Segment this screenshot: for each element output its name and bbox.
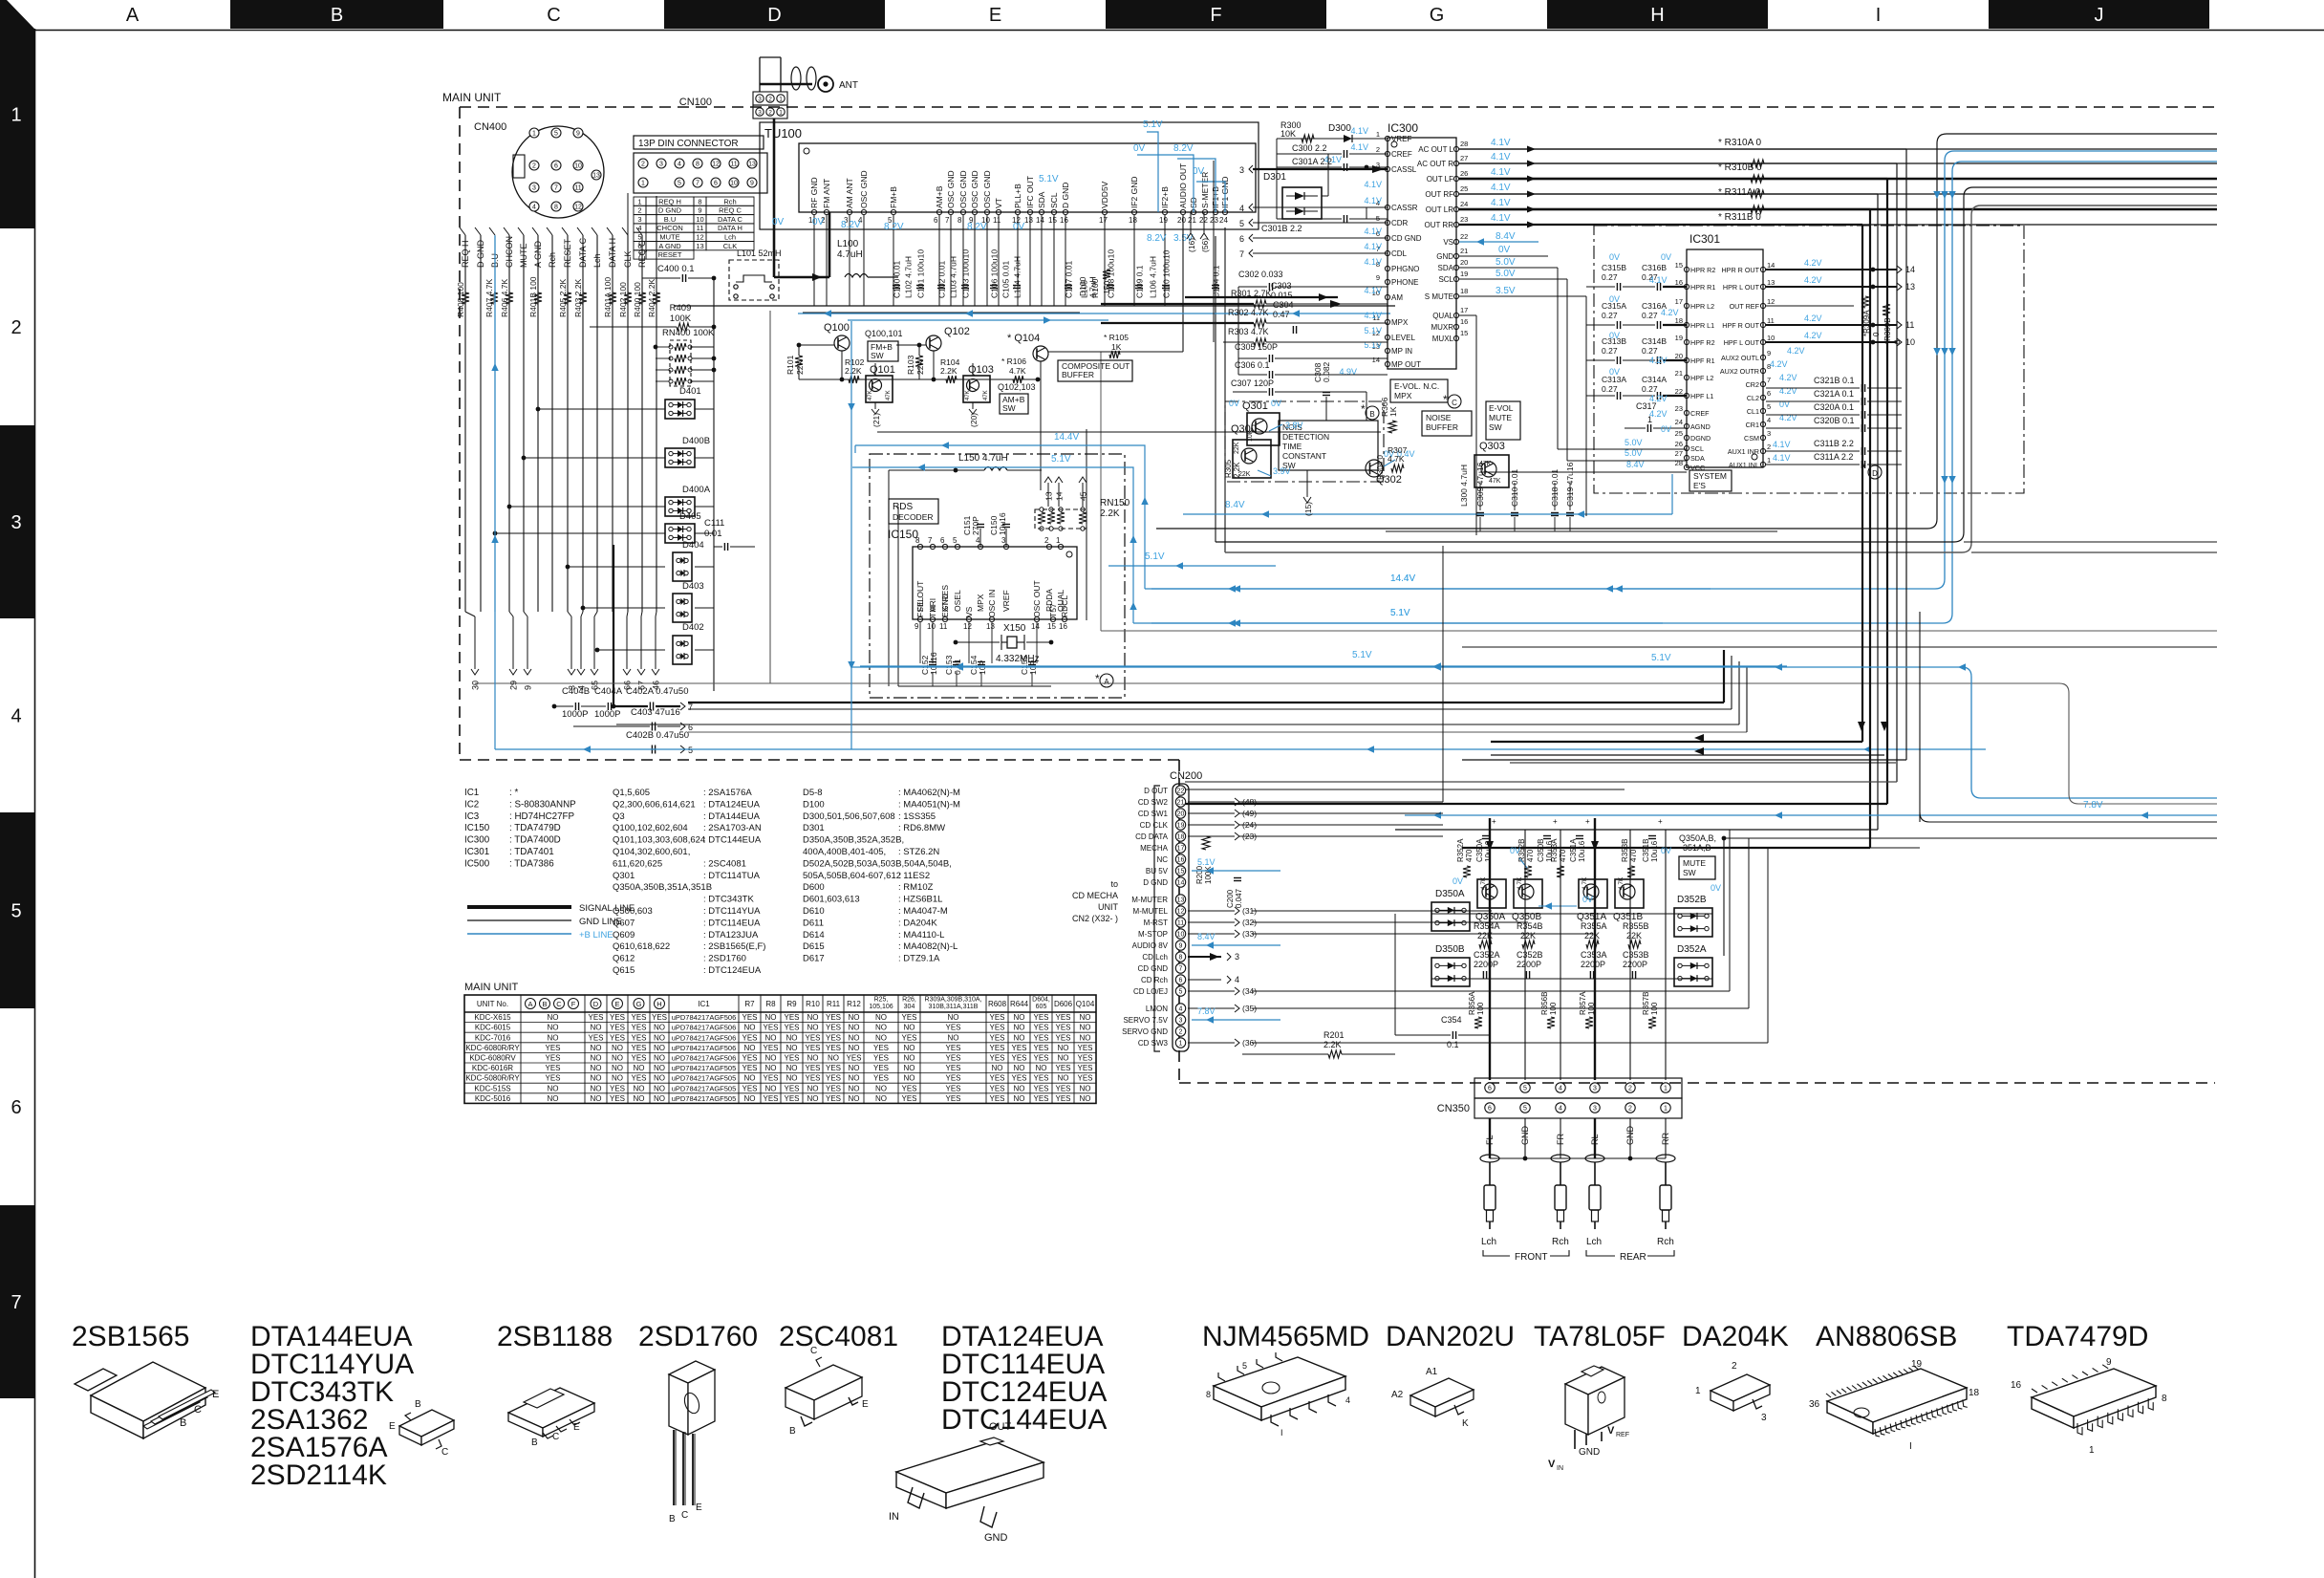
svg-text:8: 8 [958, 216, 962, 225]
IC301 left pins [1684, 267, 1689, 271]
svg-text:0.01: 0.01 [704, 529, 722, 539]
svg-text:3.8V: 3.8V [1285, 421, 1303, 430]
svg-text:Rch: Rch [1552, 1237, 1569, 1247]
svg-text:5.1V: 5.1V [1364, 326, 1382, 335]
svg-text:KDC-X615: KDC-X615 [474, 1013, 511, 1022]
svg-text:YES: YES [1055, 1084, 1070, 1092]
svg-text:0V: 0V [1609, 367, 1620, 377]
svg-text:R406 4.7K: R406 4.7K [500, 279, 509, 317]
svg-text:: S-80830ANNP: : S-80830ANNP [509, 799, 576, 810]
svg-text:Q104,302,600,601,: Q104,302,600,601, [613, 847, 690, 857]
svg-text:: 2SA1703-AN: : 2SA1703-AN [703, 823, 762, 833]
svg-text:E-VOL. N.C.: E-VOL. N.C. [1394, 381, 1439, 391]
svg-text:7: 7 [1767, 376, 1771, 384]
svg-text:uPD784217AGF506: uPD784217AGF506 [672, 1013, 737, 1022]
svg-text:CDL: CDL [1391, 249, 1408, 258]
svg-text:4.7uH: 4.7uH [1088, 276, 1098, 298]
svg-text:8.4V: 8.4V [1496, 231, 1516, 242]
svg-text:5: 5 [1767, 402, 1771, 411]
svg-text:C315B: C315B [1602, 263, 1626, 272]
svg-text:MUTE: MUTE [659, 233, 679, 242]
svg-text:2.2K: 2.2K [940, 366, 958, 376]
svg-text:9: 9 [1767, 349, 1771, 357]
svg-text:RN400 100K: RN400 100K [662, 328, 715, 338]
svg-text:HPR L1: HPR L1 [1690, 321, 1714, 330]
svg-text:14: 14 [1031, 622, 1040, 631]
right corner loop wire 3 (+B) [1133, 162, 2217, 623]
svg-text:0.015: 0.015 [1271, 291, 1293, 300]
svg-text:NO: NO [591, 1094, 602, 1103]
svg-text:19: 19 [1675, 334, 1683, 342]
svg-text:Q1,5,605: Q1,5,605 [613, 788, 650, 798]
svg-text:MP IN: MP IN [1391, 347, 1412, 356]
svg-text:NO: NO [1080, 1094, 1091, 1103]
svg-text:304: 304 [904, 1004, 915, 1010]
svg-text:IC300: IC300 [464, 835, 490, 846]
package drawing TA78L05F [1565, 1367, 1625, 1394]
svg-text:REAR: REAR [1620, 1252, 1646, 1263]
svg-text:MPX: MPX [1391, 318, 1409, 327]
svg-text:IN: IN [1557, 1465, 1563, 1472]
svg-text:4.7K: 4.7K [1517, 876, 1523, 890]
svg-text:19: 19 [1177, 823, 1185, 830]
package drawing SSOP36 AN8806SB [1827, 1369, 1967, 1422]
svg-text:B: B [669, 1514, 676, 1524]
svg-text:REQ H: REQ H [658, 197, 681, 205]
svg-text:3: 3 [532, 185, 536, 192]
svg-text:R608: R608 [988, 1000, 1007, 1008]
connector CN400 circle [512, 126, 604, 218]
svg-text:5: 5 [1179, 989, 1183, 996]
svg-text:4: 4 [637, 224, 641, 232]
svg-text:: 1SS355: : 1SS355 [898, 811, 936, 822]
svg-text:4.1V: 4.1V [1649, 275, 1668, 285]
svg-text:KDC-6080R/RY: KDC-6080R/RY [465, 1044, 520, 1052]
svg-text:5: 5 [637, 233, 641, 242]
svg-text:: RM10Z: : RM10Z [898, 882, 934, 893]
svg-text:11: 11 [730, 162, 737, 168]
svg-text:14.4V: 14.4V [1390, 573, 1415, 584]
svg-text:T57: T57 [1048, 603, 1058, 617]
svg-text:YES: YES [873, 1064, 889, 1072]
svg-text:IC500: IC500 [464, 858, 490, 869]
svg-text:KDC-515S: KDC-515S [474, 1084, 510, 1092]
svg-text:4.2V: 4.2V [1649, 409, 1668, 419]
IC301 right pins [1760, 267, 1765, 271]
svg-text:FM+B: FM+B [889, 186, 898, 208]
MAIN UNIT dashed border mid vertical [1178, 760, 1180, 1083]
svg-text:NO: NO [1080, 1084, 1091, 1092]
svg-text:27: 27 [1460, 154, 1468, 162]
svg-text:IC301: IC301 [1689, 232, 1720, 246]
svg-text:NO: NO [786, 1033, 798, 1042]
svg-text:TM: TM [928, 606, 937, 617]
svg-text:8.4V: 8.4V [1626, 460, 1645, 469]
svg-text:NO: NO [875, 1094, 887, 1103]
svg-text:4.7K: 4.7K [1618, 876, 1625, 890]
svg-text:4: 4 [1345, 1395, 1350, 1405]
svg-text:NO: NO [948, 1013, 959, 1022]
svg-text:R7: R7 [744, 1000, 755, 1008]
svg-text:C353B: C353B [1623, 950, 1649, 960]
svg-text:R309A,309B,310A,: R309A,309B,310A, [925, 997, 982, 1004]
svg-text:YES: YES [805, 1044, 820, 1052]
svg-text:5: 5 [678, 181, 681, 187]
bus line group mid [475, 682, 2059, 684]
svg-text:GND: GND [984, 1532, 1008, 1544]
svg-text:YES: YES [610, 1024, 625, 1032]
svg-text:YES: YES [1077, 1064, 1092, 1072]
svg-text:5.1V: 5.1V [1651, 653, 1671, 663]
svg-text:YES: YES [826, 1024, 841, 1032]
svg-text:NO: NO [904, 1074, 915, 1083]
stub 3 CASSL thick feed [1249, 165, 1253, 173]
svg-text:C106 100u10: C106 100u10 [990, 249, 1000, 298]
svg-text:D403: D403 [682, 581, 704, 592]
package drawing SOT23 DTA144EUA [399, 1410, 454, 1437]
svg-text:NO: NO [548, 1094, 559, 1103]
svg-text:: DA204K: : DA204K [898, 918, 937, 928]
svg-text:12: 12 [696, 233, 703, 242]
IC150 top pins [917, 544, 922, 549]
svg-text:TDA7479D: TDA7479D [2007, 1321, 2148, 1352]
svg-text:SCL: SCL [1690, 444, 1704, 453]
+B blue line bottom run [495, 748, 1986, 750]
svg-text:: DTC114YUA: : DTC114YUA [703, 906, 761, 917]
svg-text:: *: : * [509, 788, 518, 798]
svg-text:12: 12 [712, 162, 720, 168]
svg-text:YES: YES [1077, 1044, 1092, 1052]
svg-text:AM+B: AM+B [935, 185, 944, 208]
svg-text:CASSL: CASSL [1391, 165, 1417, 174]
svg-text:YES: YES [901, 1084, 916, 1092]
svg-text:47K: 47K [886, 390, 892, 400]
package drawing SOT23 2SC4081 [785, 1365, 862, 1400]
svg-text:+: + [1585, 817, 1590, 826]
svg-text:IN: IN [889, 1511, 899, 1523]
svg-text:0.27: 0.27 [1642, 311, 1658, 320]
svg-text:0V: 0V [1510, 846, 1520, 855]
svg-text:2: 2 [1179, 1029, 1183, 1036]
svg-text:+: + [1658, 817, 1663, 826]
svg-text:CD CLK: CD CLK [1140, 821, 1169, 830]
svg-text:B: B [180, 1417, 186, 1429]
svg-text:8.2V: 8.2V [841, 220, 861, 230]
svg-text:0.27: 0.27 [1642, 384, 1658, 394]
svg-text:NO: NO [828, 1054, 839, 1063]
svg-text:SW: SW [1683, 868, 1696, 877]
svg-text:9: 9 [524, 685, 533, 690]
svg-text:G: G [636, 1000, 642, 1008]
svg-text:R12: R12 [847, 1000, 861, 1008]
svg-text:DA204K: DA204K [1682, 1321, 1789, 1352]
svg-text:14: 14 [1055, 491, 1065, 501]
svg-text:NO: NO [1080, 1024, 1091, 1032]
svg-text:3: 3 [1767, 429, 1771, 438]
legend SIGNAL LINE [467, 905, 571, 909]
svg-text:D GND: D GND [476, 240, 485, 269]
svg-text:1000P: 1000P [594, 709, 620, 720]
svg-text:YES: YES [826, 1044, 841, 1052]
svg-text:270P: 270P [971, 516, 980, 535]
svg-text:YES: YES [945, 1094, 960, 1103]
svg-text:NO: NO [591, 1024, 602, 1032]
svg-text:19: 19 [1159, 216, 1168, 225]
svg-text:13: 13 [986, 622, 995, 631]
svg-text:16: 16 [1059, 622, 1067, 631]
svg-text:14: 14 [1767, 261, 1775, 270]
svg-text:2: 2 [641, 162, 645, 168]
svg-text:NO: NO [849, 1074, 860, 1083]
svg-text:CD MECHA: CD MECHA [1072, 891, 1118, 900]
antenna lead wire [760, 83, 812, 86]
svg-text:SDA: SDA [1037, 191, 1046, 208]
svg-text:20: 20 [1675, 352, 1683, 360]
svg-text:IFC OUT: IFC OUT [1025, 176, 1035, 208]
svg-text:NO: NO [875, 1033, 887, 1042]
IC300 out turn-down verticals [1459, 148, 1906, 150]
svg-text:3: 3 [1593, 1086, 1597, 1092]
svg-text:SERVO 7.5V: SERVO 7.5V [1123, 1016, 1168, 1025]
svg-text:8.2V: 8.2V [1173, 143, 1194, 154]
MAIN UNIT dashed border bottom-left [460, 759, 1179, 761]
svg-text:YES: YES [1077, 1074, 1092, 1083]
svg-text:CN100: CN100 [679, 97, 712, 108]
svg-text:LEVEL: LEVEL [1391, 334, 1415, 342]
svg-text:D350A,350B,352A,352B,: D350A,350B,352A,352B, [803, 835, 904, 846]
right bus mid horizontals [1964, 541, 2217, 543]
svg-text:NO: NO [849, 1024, 860, 1032]
svg-text:Q300: Q300 [1231, 423, 1257, 435]
svg-text:5: 5 [11, 901, 21, 922]
svg-text:* R106: * R106 [1001, 357, 1026, 366]
svg-text:20: 20 [1177, 216, 1186, 225]
svg-text:YES: YES [1055, 1064, 1070, 1072]
svg-text:OSC GND: OSC GND [982, 170, 992, 208]
svg-text:NO: NO [612, 1044, 623, 1052]
svg-text:B: B [531, 1437, 538, 1448]
svg-text:2.2K: 2.2K [845, 366, 862, 376]
svg-text:CD DATA: CD DATA [1135, 832, 1169, 841]
svg-text:SDA: SDA [1690, 454, 1705, 463]
svg-text:NO: NO [849, 1064, 860, 1072]
svg-text:Q101,103,303,608,624: Q101,103,303,608,624 [613, 835, 705, 846]
svg-text:Q101: Q101 [870, 364, 895, 376]
svg-text:NOISE: NOISE [1426, 413, 1452, 422]
svg-text:uPD784217AGF506: uPD784217AGF506 [672, 1033, 737, 1042]
svg-text:YES: YES [945, 1054, 960, 1063]
CN400 wire bundle [464, 235, 466, 612]
svg-text:Q350A,B,: Q350A,B, [1679, 833, 1716, 843]
svg-text:7: 7 [1179, 966, 1183, 973]
svg-text:B.U: B.U [664, 215, 677, 224]
NOISE BUFFER box [1422, 411, 1472, 436]
svg-text:4: 4 [1559, 1086, 1562, 1092]
pin stub 7 [680, 703, 685, 710]
stubs 4 5 6 7 left of IC300 [1249, 204, 1253, 211]
svg-text:YES: YES [1033, 1074, 1048, 1083]
svg-text:Lch: Lch [724, 233, 736, 242]
svg-text:NO: NO [807, 1054, 819, 1063]
stub 20 [972, 402, 974, 409]
svg-text:C200: C200 [1226, 889, 1235, 908]
svg-text:0V: 0V [1609, 252, 1620, 262]
svg-text:D350A: D350A [1435, 889, 1465, 899]
NOIS DETECTION box [1279, 421, 1378, 470]
svg-text:6: 6 [1239, 234, 1244, 244]
CN200 right stubs [1188, 801, 1235, 803]
svg-text:YES: YES [1011, 1054, 1026, 1063]
svg-text:4: 4 [678, 162, 681, 168]
svg-text:OUT LF: OUT LF [1427, 175, 1453, 184]
svg-text:5.1V: 5.1V [1197, 857, 1216, 867]
svg-text:1: 1 [1767, 456, 1771, 465]
svg-text:10: 10 [574, 163, 582, 170]
svg-text:2.2K: 2.2K [1233, 462, 1241, 478]
svg-text:OUT: OUT [989, 1421, 1012, 1433]
svg-text:8: 8 [698, 197, 701, 205]
svg-text:C: C [810, 1346, 817, 1356]
svg-text:Q350A,350B,351A,351B: Q350A,350B,351A,351B [613, 882, 712, 893]
svg-text:10: 10 [1767, 334, 1775, 342]
left ruler black block 3 [0, 425, 34, 618]
svg-text:D301: D301 [1263, 172, 1286, 183]
transistor Q302 [1366, 460, 1383, 477]
svg-text:100: 100 [1650, 1002, 1659, 1015]
svg-text:YES: YES [945, 1064, 960, 1072]
svg-text:NO: NO [612, 1074, 623, 1083]
svg-text:6: 6 [11, 1097, 21, 1118]
under IC301 bus [1386, 530, 1777, 532]
svg-text:Q104: Q104 [1076, 1000, 1095, 1008]
svg-text:2: 2 [1732, 1361, 1737, 1372]
svg-text:L300 4.7uH: L300 4.7uH [1459, 465, 1469, 507]
svg-text:9: 9 [1376, 273, 1380, 282]
svg-text:17: 17 [1675, 297, 1683, 306]
connector CN400 keying rect [513, 155, 525, 178]
svg-text:1000P: 1000P [562, 709, 588, 720]
svg-text:D: D [767, 5, 781, 26]
svg-text:KDC-5080R/RY: KDC-5080R/RY [465, 1074, 520, 1083]
svg-text:D604,: D604, [1032, 997, 1050, 1004]
svg-text:M-STOP: M-STOP [1138, 930, 1168, 939]
svg-text:6: 6 [637, 242, 641, 250]
svg-text:NO: NO [1014, 1064, 1025, 1072]
svg-text:18: 18 [1969, 1388, 1980, 1398]
svg-text:23: 23 [1675, 404, 1683, 413]
svg-text:CL1: CL1 [1747, 407, 1759, 416]
svg-text:A: A [527, 1000, 532, 1008]
svg-text:YES: YES [1077, 1054, 1092, 1063]
svg-text:VT: VT [994, 198, 1003, 208]
svg-text:RESET: RESET [657, 250, 681, 259]
svg-text:8.2V: 8.2V [1147, 233, 1167, 244]
svg-text:NO: NO [1080, 1013, 1091, 1022]
svg-text:505A,505B,604-607,612: 505A,505B,604-607,612 [803, 871, 901, 881]
top ruler black block H [1547, 0, 1768, 29]
svg-text:REF: REF [1616, 1432, 1629, 1438]
svg-text:: MA4082(N)-L: : MA4082(N)-L [898, 941, 958, 952]
left wires to IC300 [1213, 161, 1215, 342]
svg-text:YES: YES [784, 1054, 799, 1063]
svg-text:7.8V: 7.8V [1197, 1006, 1216, 1016]
svg-text:NO: NO [904, 1054, 915, 1063]
svg-text:NO: NO [1014, 1024, 1025, 1032]
right corner loop wire 4 [1216, 187, 2217, 542]
svg-text:4: 4 [1179, 1006, 1183, 1013]
svg-text:MUXR: MUXR [1431, 323, 1453, 332]
svg-text:FSEL: FSEL [915, 596, 925, 617]
svg-text:2SC4081: 2SC4081 [779, 1321, 898, 1352]
svg-text:D: D [1872, 469, 1878, 478]
svg-text:C314B: C314B [1642, 336, 1667, 346]
svg-text:L102 4.7uH: L102 4.7uH [904, 256, 914, 298]
top ruler black block B [230, 0, 443, 29]
svg-text:NO: NO [786, 1074, 798, 1083]
svg-text:28: 28 [1460, 140, 1468, 148]
svg-text:Rch: Rch [1657, 1237, 1674, 1247]
antenna feed to tuner [773, 119, 776, 277]
svg-text:3: 3 [11, 512, 21, 533]
svg-text:17: 17 [1177, 846, 1185, 853]
legend +B LINE [467, 933, 571, 935]
section B dash-dot box [1225, 401, 1384, 482]
svg-text:* R105: * R105 [1104, 333, 1129, 342]
svg-text:Lch: Lch [592, 253, 602, 268]
svg-text:R357A: R357A [1579, 991, 1587, 1015]
svg-text:NO: NO [807, 1013, 819, 1022]
svg-text:HPR L OUT: HPR L OUT [1723, 283, 1760, 292]
svg-text:YES: YES [989, 1074, 1004, 1083]
svg-text:20: 20 [1177, 811, 1185, 818]
svg-text:16: 16 [1060, 216, 1068, 225]
svg-text:0V: 0V [1609, 294, 1620, 304]
svg-text:NO: NO [654, 1084, 665, 1092]
IC301 right out wires [1766, 269, 1897, 270]
svg-text:: HD74HC27FP: : HD74HC27FP [509, 811, 575, 822]
left ruler line [34, 29, 36, 1578]
svg-text:YES: YES [1033, 1033, 1048, 1042]
audio out feed [1182, 215, 1184, 352]
svg-text:C102 0.01: C102 0.01 [937, 261, 947, 298]
svg-text:FM ANT: FM ANT [822, 179, 831, 208]
svg-text:D400A: D400A [682, 485, 711, 495]
svg-text:YES: YES [873, 1074, 889, 1083]
svg-text:2: 2 [1628, 1086, 1632, 1092]
svg-text:OSEL: OSEL [953, 590, 962, 612]
svg-text:13: 13 [1767, 278, 1775, 287]
svg-text:YES: YES [901, 1033, 916, 1042]
svg-text:: RD6.8MW: : RD6.8MW [898, 823, 945, 833]
svg-text:NO: NO [654, 1024, 665, 1032]
svg-text:YES: YES [763, 1074, 778, 1083]
svg-text:10: 10 [927, 622, 936, 631]
svg-text:GND: GND [1436, 252, 1453, 261]
svg-text:11: 11 [697, 224, 704, 232]
svg-text:4.2V: 4.2V [1787, 346, 1805, 356]
svg-text:(15): (15) [1303, 502, 1313, 516]
svg-text:E: E [573, 1422, 580, 1433]
top ruler black block D [664, 0, 885, 29]
svg-text:KDC-6015: KDC-6015 [475, 1024, 511, 1032]
svg-text:C: C [552, 1432, 559, 1442]
svg-text:NO: NO [654, 1054, 665, 1063]
svg-text:4: 4 [1235, 975, 1239, 984]
svg-text:NO: NO [1014, 1013, 1025, 1022]
svg-text:DATA C: DATA C [718, 215, 743, 224]
svg-text:YES: YES [784, 1084, 799, 1092]
svg-text:SIGNAL LINE: SIGNAL LINE [579, 903, 635, 914]
